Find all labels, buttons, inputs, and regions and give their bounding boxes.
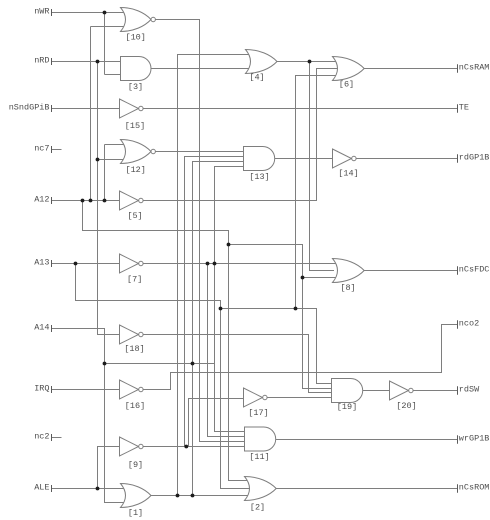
svg-text:[12]: [12] <box>125 165 145 175</box>
wire net nCsRAM: U6 output to pin <box>364 68 458 70</box>
junction U1 out x177.5 <box>176 494 180 498</box>
pin tick rdGP1B <box>457 154 459 163</box>
svg-text:A12: A12 <box>34 195 49 205</box>
svg-text:nSndGPiB: nSndGPiB <box>9 103 50 113</box>
pin tick nWR <box>51 9 53 16</box>
inverter U18 <box>120 325 139 344</box>
svg-text:A13: A13 <box>34 258 49 268</box>
svg-text:nc2: nc2 <box>34 432 49 442</box>
inverter U14 <box>333 149 352 168</box>
wire net ALE: input row to U1 pin1, up x97.5 to U9 input <box>52 447 126 489</box>
svg-text:TE: TE <box>459 103 469 113</box>
junction A14 node y363.5 <box>103 362 107 366</box>
svg-text:[11]: [11] <box>249 452 269 462</box>
wire net A14: input row down x104.5 to U1 pin2 <box>52 329 124 503</box>
pin tick ALE <box>51 485 53 492</box>
junction A12 to U10 pin2 <box>89 199 93 203</box>
svg-text:[15]: [15] <box>125 121 145 131</box>
and gate U19 <box>332 379 363 403</box>
wire net U10 output to U11 pin3 <box>155 20 246 442</box>
pin tick A14 <box>51 325 53 332</box>
and gate U11 <box>245 427 276 451</box>
pin tick nCsRAM <box>457 64 459 73</box>
junction A12 net y244.5 <box>227 243 231 247</box>
or gate U1 <box>121 484 152 508</box>
junction U12 pin2 <box>96 158 100 162</box>
svg-text:[16]: [16] <box>125 401 145 411</box>
wire net A13: input row to U7, down via x75.5 to x220.5 to U2 pin2, branch y308.5 to U6 pin3 and U19 pin1 <box>52 76 338 489</box>
wire net U4 output: to U6 pin1, down x309.5 to U8 pin2 <box>277 62 339 271</box>
wire net wrGP1B: U11 output to pin <box>276 439 458 441</box>
wire net nCsFDC: U8 output to pin <box>365 270 458 272</box>
wire net U13 output to U14 input <box>275 158 333 160</box>
inverter U5 <box>120 191 139 210</box>
svg-text:[3]: [3] <box>128 82 143 92</box>
svg-text:[4]: [4] <box>249 73 264 83</box>
inverter U16 <box>120 380 139 399</box>
wire net nc7 stub <box>52 149 62 151</box>
junction A13 net x295.5 <box>294 307 298 311</box>
wire net nWR: input row to U10 pin1 and down to U3 pin2 <box>52 13 126 75</box>
wire net U18 output: right then down x308.5 to U19 pin3 <box>143 335 335 393</box>
nor gate U10 <box>121 8 152 32</box>
svg-text:[20]: [20] <box>396 401 416 411</box>
junction U7 out x207.5 <box>206 262 210 266</box>
inverter U20 <box>390 381 409 400</box>
wire net U1 output: to U2 pin3, up x177.5 to U4 pin1 <box>151 55 251 496</box>
svg-text:[13]: [13] <box>249 172 269 182</box>
svg-text:rdGP1B: rdGP1B <box>459 153 490 163</box>
wire net nRD: input row to U3 pin1, down to U12 pin2 and U18 input <box>52 62 126 335</box>
svg-text:[8]: [8] <box>340 283 355 293</box>
svg-text:nCsRAM: nCsRAM <box>459 63 490 73</box>
svg-text:nWR: nWR <box>34 7 49 17</box>
wire net rdSW: U20 output to pin <box>413 390 457 392</box>
wire net rdGP1B: U14 output to pin <box>356 158 457 160</box>
junction ALE to U9 <box>96 487 100 491</box>
inverter U17 <box>244 388 263 407</box>
svg-text:A14: A14 <box>34 323 49 333</box>
pin tick nco2 <box>457 320 459 329</box>
pin tick wrGP1B <box>457 435 459 444</box>
wire net U12 output to U13 pin1 <box>155 151 248 153</box>
svg-text:nCsROM: nCsROM <box>459 483 490 493</box>
junction U7 out x214.5 <box>213 262 217 266</box>
junction U9 out <box>184 445 188 449</box>
wire net nco2: U16 output up and over to nco2 pin <box>144 325 458 390</box>
svg-text:[5]: [5] <box>127 211 142 221</box>
junction A12 branch x82.5 <box>81 199 85 203</box>
svg-text:IRQ: IRQ <box>34 384 49 394</box>
wire net node y363.5: from A14 vertical to x192.5 vertical joining U13 pin3 and U1 output <box>105 162 249 496</box>
inverter U15 <box>120 99 139 118</box>
wire net nSndGPiB: input row to U15 input <box>52 108 120 110</box>
junction U4 out to U8 <box>308 60 312 64</box>
or gate U6 <box>333 57 365 81</box>
svg-text:[6]: [6] <box>339 80 354 90</box>
svg-text:rdSW: rdSW <box>459 385 480 395</box>
and gate U3 <box>121 57 152 81</box>
pin tick rdSW <box>457 386 459 395</box>
svg-text:[19]: [19] <box>337 402 357 412</box>
wire net TE: U15 output to TE pin <box>144 108 458 110</box>
wire net A12: input row to U5, up to U10 pin2, up to U12 pin1, down via x82.5 and x228.5 to U8 pin3, U19 pin2, U2 pin1 <box>52 27 338 481</box>
and gate U13 <box>244 147 275 171</box>
pin tick nc2 <box>51 434 53 441</box>
svg-text:ALE: ALE <box>34 483 49 493</box>
svg-text:wrGP1B: wrGP1B <box>459 434 490 444</box>
junction A13 branch <box>74 262 78 266</box>
wire net nCsROM: U2 output to pin <box>276 488 458 490</box>
svg-text:nc7: nc7 <box>34 144 49 154</box>
svg-text:[18]: [18] <box>124 344 144 354</box>
wire net nc2 stub <box>52 437 62 439</box>
svg-text:[2]: [2] <box>250 503 265 513</box>
svg-text:nRD: nRD <box>34 56 49 66</box>
junction A13 net x220.5 <box>219 307 223 311</box>
junction nRD vertical <box>96 60 100 64</box>
pin tick IRQ <box>51 386 53 393</box>
wire net U17 output to U19 pin4 <box>268 397 336 399</box>
wire net IRQ: input row to U16 input <box>52 389 120 391</box>
or gate U8 <box>333 259 365 283</box>
svg-text:[1]: [1] <box>128 508 143 518</box>
junction U1 out x192.5 <box>191 494 195 498</box>
junction node x192.5 y363.5 <box>191 362 195 366</box>
svg-text:nCsFDC: nCsFDC <box>459 265 490 275</box>
wire net U5 output: right then up x316.5 to U6 pin2 <box>144 69 339 201</box>
junction nWR to U3 <box>103 11 107 15</box>
svg-text:[17]: [17] <box>248 408 268 418</box>
svg-text:[9]: [9] <box>128 460 143 470</box>
pin tick nRD <box>51 58 53 65</box>
inverter U9 <box>120 437 139 456</box>
wire net U9 output: to U11 pin4, up to U13 pin2, up to U17 input <box>144 157 249 447</box>
svg-text:nco2: nco2 <box>459 319 479 329</box>
pin tick nCsFDC <box>457 266 459 275</box>
pin tick A12 <box>51 197 53 204</box>
wire net U7 output: to U8 pin1, down to U11 pin2, up to U13 pin4 and down to U11 pin1 <box>144 167 337 437</box>
or gate U2 <box>245 477 277 501</box>
pin tick A13 <box>51 260 53 267</box>
svg-text:[10]: [10] <box>125 33 145 43</box>
junction U8 pin3 <box>301 276 305 280</box>
svg-text:[14]: [14] <box>338 169 358 179</box>
wire net U3 output to U4 pin2 <box>151 68 250 70</box>
svg-text:[7]: [7] <box>127 275 142 285</box>
wire net U19 output to U20 input <box>363 390 390 392</box>
inverter U7 <box>120 254 139 273</box>
pin tick nCsROM <box>457 484 459 493</box>
pin tick nc7 <box>51 146 53 153</box>
pin tick TE <box>457 104 459 113</box>
nor gate U12 <box>121 140 152 164</box>
or gate U4 <box>246 50 278 74</box>
pin tick nSndGPiB <box>51 105 53 112</box>
junction A12 to U12 pin1 <box>103 199 107 203</box>
